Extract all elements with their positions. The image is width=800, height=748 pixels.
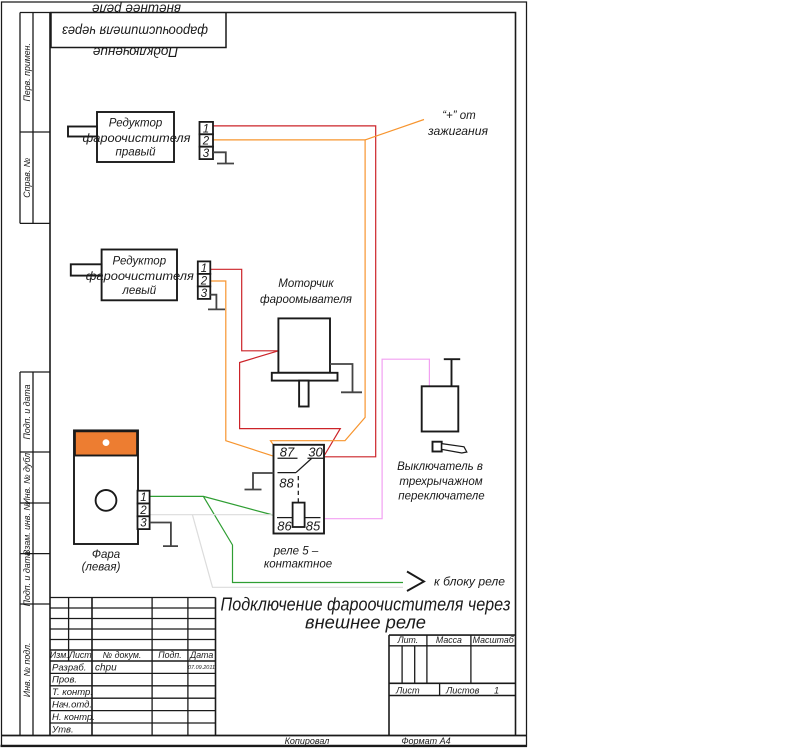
headlight orange cap (75, 431, 137, 455)
headlight cap hole (103, 439, 110, 446)
switch lever arm (442, 444, 467, 453)
podp column vertical (187, 598, 189, 736)
svg-text:фароочистителя: фароочистителя (83, 133, 191, 145)
wire red: left reducer pin1 to washer motor (210, 269, 278, 351)
svg-text:Выключатель в: Выключатель в (397, 461, 483, 473)
relay pin 86 bar (277, 517, 293, 519)
wire orange: ignition feed branch (365, 120, 424, 140)
divider under Vzam. inv. No (20, 553, 50, 555)
massa column vertical (470, 635, 472, 683)
left margin column lines (bottom section) (20, 372, 50, 736)
lit column vertical (426, 635, 428, 683)
svg-text:к блоку реле: к блоку реле (434, 577, 505, 589)
headlight connector pin 2 (138, 504, 150, 517)
relay pin 85 bar (305, 517, 321, 519)
page bottom edge thick line (1, 745, 528, 747)
svg-text:внешнее реле: внешнее реле (92, 2, 181, 17)
svg-text:1: 1 (203, 123, 209, 135)
wire green: junction to relay block rail (203, 496, 403, 582)
svg-text:Моторчик: Моторчик (278, 278, 334, 290)
switch lever base (433, 442, 442, 452)
svg-text:трехрычажном: трехрычажном (399, 476, 482, 488)
relay contact arm diagonal (296, 459, 312, 473)
svg-text:Масштаб: Масштаб (473, 635, 515, 645)
svg-text:Подп.: Подп. (158, 650, 181, 660)
svg-text:Пров.: Пров. (52, 675, 77, 686)
ground at headlight pin 3 (150, 523, 178, 547)
svg-text:Формат А4: Формат А4 (401, 736, 450, 746)
washer motor shaft (299, 381, 309, 407)
relay contact bar at 88 (278, 472, 297, 474)
relay pin 87 underline (278, 457, 298, 459)
svg-text:переключателе: переключателе (398, 491, 484, 503)
svg-text:1: 1 (201, 263, 207, 275)
list row bottom line (389, 695, 516, 697)
svg-text:“+” от: “+” от (442, 110, 476, 122)
svg-text:Фара: Фара (92, 549, 120, 561)
svg-text:3: 3 (140, 518, 147, 530)
svg-text:Редуктор: Редуктор (109, 118, 163, 130)
svg-text:Редуктор: Редуктор (113, 256, 167, 268)
frame bottom line (2, 735, 527, 737)
drawing frame (50, 13, 516, 736)
izm column vertical (68, 598, 70, 662)
svg-text:Подключение: Подключение (93, 45, 178, 60)
divider under Inv. No dubl. (20, 502, 50, 504)
wire orange: right reducer pin2 down to relay pin 87 (213, 140, 365, 445)
left wiper reducer box (102, 250, 177, 301)
title block top line (left part) (50, 597, 216, 599)
svg-text:3: 3 (203, 148, 210, 160)
svg-text:Разраб.: Разраб. (52, 662, 86, 673)
svg-text:86: 86 (277, 519, 292, 534)
wire red: washer motor junction to relay pin 30 (240, 351, 341, 456)
svg-text:2: 2 (200, 275, 208, 287)
svg-text:Перв. примен.: Перв. примен. (22, 43, 32, 101)
svg-text:Лист: Лист (68, 650, 92, 660)
headlight body (74, 430, 138, 544)
headlight connector pin 1 (138, 491, 150, 504)
svg-text:Т. контр.: Т. контр. (52, 687, 93, 698)
ground at washer motor (330, 364, 362, 392)
list column vertical (91, 598, 93, 736)
svg-text:фароочистителя через: фароочистителя через (62, 24, 208, 39)
svg-text:Инв. № подл.: Инв. № подл. (22, 643, 32, 698)
left reducer connector pin 1 (198, 261, 211, 274)
svg-text:левый: левый (121, 285, 156, 297)
left reducer connector pin 3 (198, 286, 211, 299)
svg-text:1: 1 (140, 492, 146, 504)
no dokum column vertical (151, 598, 153, 736)
right reducer connector pin 1 (200, 122, 214, 134)
svg-text:Листов: Листов (445, 686, 480, 696)
svg-text:зажигания: зажигания (427, 126, 488, 138)
switch stem (444, 359, 460, 386)
svg-text:(левая): (левая) (82, 562, 121, 574)
left reducer arm stub (71, 264, 102, 275)
svg-text:Копировал: Копировал (285, 736, 330, 746)
header row bottom line (50, 660, 216, 662)
wire gray: branch to relay block rail (192, 515, 403, 588)
svg-text:87: 87 (280, 445, 295, 460)
change-table empty row lines (50, 608, 216, 640)
svg-text:2: 2 (202, 136, 210, 148)
headlight connector pin 3 (138, 516, 150, 529)
svg-text:Подп. и дата: Подп. и дата (22, 551, 32, 606)
right wiper reducer box (97, 112, 174, 162)
svg-text:3: 3 (201, 288, 208, 300)
divider under Sprav. No (20, 222, 50, 224)
svg-text:Лит.: Лит. (397, 635, 419, 645)
left margin column lines (top section) (20, 13, 50, 224)
svg-text:07.09.2011: 07.09.2011 (188, 665, 215, 671)
divider under Podp. i data (upper) (20, 451, 50, 453)
svg-text:chpu: chpu (95, 662, 117, 673)
left reducer connector pin 2 (198, 274, 211, 287)
right reducer connector pin 2 (200, 134, 214, 146)
svg-text:контактное: контактное (264, 559, 332, 571)
svg-text:Взам. инв. №: Взам. инв. № (22, 501, 32, 555)
svg-text:Утв.: Утв. (51, 724, 74, 735)
right reducer connector pin 3 (200, 147, 214, 159)
svg-text:2: 2 (139, 505, 147, 517)
svg-text:1: 1 (494, 686, 499, 696)
lit masa masshtab header bottom (389, 645, 516, 647)
divider under Perv. primen. (20, 131, 50, 133)
relay coil dashed link (297, 476, 299, 503)
svg-text:Масса: Масса (436, 635, 462, 645)
right section top line (389, 634, 516, 636)
wire green: headlight pin1 to relay pin 86 (150, 496, 273, 515)
headlight lens circle (96, 490, 117, 511)
page outer border (2, 2, 527, 746)
relay coil (293, 503, 305, 527)
divider under Podp. i data (lower) (20, 603, 50, 605)
svg-text:Лист: Лист (395, 686, 420, 696)
svg-text:Н. контр.: Н. контр. (52, 712, 95, 723)
ground at right reducer pin 3 (213, 152, 234, 163)
svg-text:№ докум.: № докум. (103, 650, 142, 660)
svg-text:Нач.отд.: Нач.отд. (52, 700, 92, 711)
wire gray: headlight pin2 to relay pin 86 (150, 514, 273, 516)
title cell left vertical (215, 598, 217, 736)
svg-text:88: 88 (279, 476, 294, 491)
svg-text:правый: правый (116, 147, 157, 159)
svg-text:внешнее реле: внешнее реле (305, 612, 426, 633)
svg-text:Инв. № дубл.: Инв. № дубл. (22, 450, 32, 504)
washer motor body (278, 318, 330, 372)
wire magenta: relay pin 85 to switch (325, 359, 430, 519)
list row top line (389, 682, 516, 684)
right reducer arm stub (68, 127, 97, 137)
wire orange: left reducer pin2 to relay pin 87 (210, 281, 272, 456)
signature row lines (50, 673, 216, 723)
ground at left reducer pin 3 (208, 295, 225, 310)
relay box (274, 445, 325, 534)
svg-text:Изм.: Изм. (50, 650, 69, 660)
wire red: right reducer pin1 to relay pin 30 (213, 126, 376, 457)
arrow to relay block (407, 572, 424, 592)
svg-text:реле 5 –: реле 5 – (273, 546, 319, 558)
relay pin 30 underline (308, 457, 325, 459)
right section left vertical (388, 635, 390, 735)
svg-text:85: 85 (306, 519, 321, 534)
list/listov divider (439, 683, 441, 695)
switch body (422, 386, 459, 431)
svg-text:Дата: Дата (189, 650, 213, 660)
header row top line (50, 649, 216, 651)
svg-text:фароочистителя: фароочистителя (86, 271, 194, 283)
svg-text:30: 30 (308, 445, 323, 460)
lit subcolumn verticals (402, 646, 415, 684)
ground at relay pin 88 (245, 473, 274, 490)
washer motor flange (272, 373, 338, 381)
svg-text:Подп. и дата: Подп. и дата (22, 384, 32, 439)
svg-text:фароомывателя: фароомывателя (260, 294, 352, 306)
rotated stamp box (51, 13, 226, 48)
svg-text:Справ. №: Справ. № (22, 158, 32, 198)
